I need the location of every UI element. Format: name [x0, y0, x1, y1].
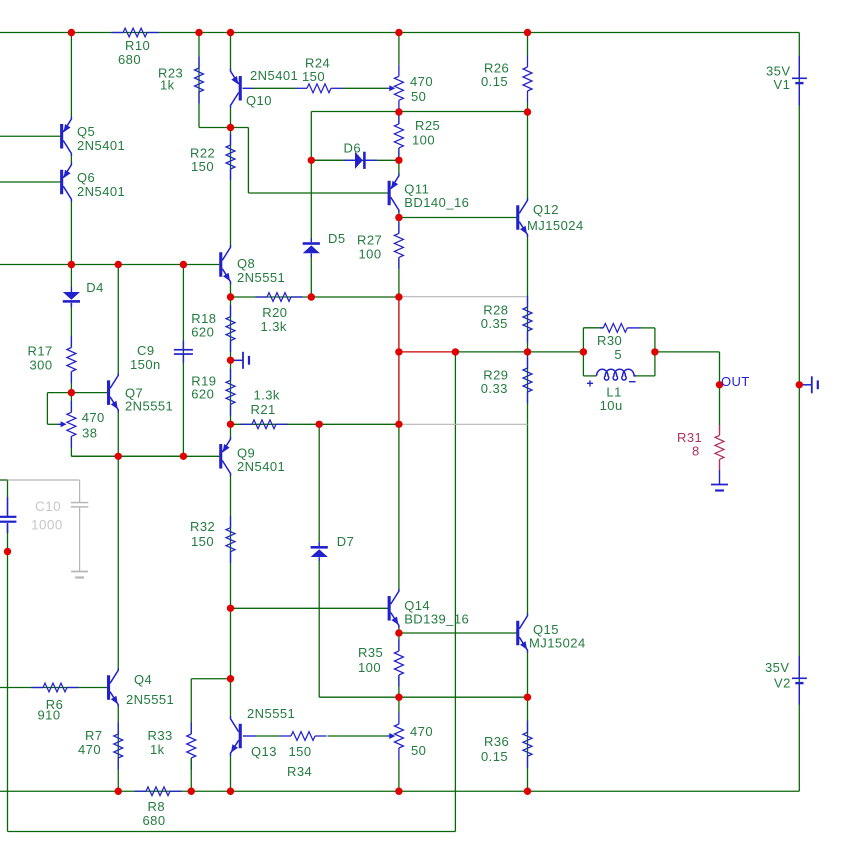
svg-text:620: 620	[191, 387, 214, 402]
svg-text:1000: 1000	[31, 518, 63, 533]
svg-text:0.15: 0.15	[481, 749, 508, 764]
svg-text:V2: V2	[774, 676, 791, 691]
svg-text:R27: R27	[357, 232, 382, 247]
svg-text:MJ15024: MJ15024	[529, 636, 586, 651]
svg-text:2N5551: 2N5551	[126, 692, 174, 707]
svg-text:D7: D7	[337, 534, 355, 549]
svg-text:D5: D5	[328, 231, 346, 246]
svg-text:35V: 35V	[765, 660, 789, 675]
svg-text:MJ15024: MJ15024	[527, 218, 584, 233]
svg-text:Q5: Q5	[77, 124, 95, 139]
svg-text:−: −	[629, 374, 637, 389]
svg-text:620: 620	[191, 325, 214, 340]
svg-text:150: 150	[302, 69, 325, 84]
svg-text:2N5551: 2N5551	[237, 270, 285, 285]
svg-text:R25: R25	[415, 118, 440, 133]
svg-text:300: 300	[30, 358, 53, 373]
svg-text:10u: 10u	[600, 398, 623, 413]
svg-text:8: 8	[692, 444, 700, 459]
svg-text:Q4: Q4	[134, 672, 152, 687]
svg-text:50: 50	[411, 89, 426, 104]
svg-text:OUT: OUT	[721, 374, 750, 389]
svg-text:470: 470	[410, 74, 433, 89]
svg-text:2N5551: 2N5551	[125, 399, 173, 414]
svg-text:150: 150	[289, 744, 312, 759]
svg-text:150: 150	[191, 159, 214, 174]
svg-text:Q6: Q6	[77, 170, 95, 185]
svg-text:100: 100	[359, 247, 382, 262]
svg-text:470: 470	[82, 410, 105, 425]
svg-text:1k: 1k	[150, 742, 165, 757]
svg-text:+: +	[587, 377, 594, 391]
svg-text:0.15: 0.15	[481, 74, 508, 89]
svg-text:2N5401: 2N5401	[237, 459, 285, 474]
svg-text:R10: R10	[125, 38, 150, 53]
svg-text:R17: R17	[28, 344, 53, 359]
svg-text:Q13: Q13	[251, 744, 277, 759]
svg-text:150: 150	[191, 534, 214, 549]
svg-text:Q8: Q8	[237, 256, 255, 271]
svg-text:1.3k: 1.3k	[261, 319, 287, 334]
svg-text:1.3k: 1.3k	[254, 388, 280, 403]
svg-text:BD139_16: BD139_16	[404, 612, 469, 627]
svg-text:2N5401: 2N5401	[250, 68, 298, 83]
svg-text:R36: R36	[484, 734, 509, 749]
svg-text:2N5551: 2N5551	[247, 706, 295, 721]
svg-text:150n: 150n	[130, 357, 161, 372]
svg-text:100: 100	[358, 660, 381, 675]
svg-text:Q12: Q12	[533, 202, 559, 217]
svg-text:680: 680	[143, 813, 166, 828]
svg-text:C10: C10	[35, 499, 61, 514]
svg-text:680: 680	[118, 52, 141, 67]
svg-text:R8: R8	[148, 799, 166, 814]
svg-text:0.35: 0.35	[481, 316, 508, 331]
svg-text:Q10: Q10	[246, 93, 272, 108]
svg-text:R30: R30	[597, 333, 622, 348]
svg-text:C9: C9	[137, 343, 155, 358]
svg-text:R35: R35	[358, 645, 383, 660]
svg-text:0.33: 0.33	[481, 381, 508, 396]
svg-text:R7: R7	[85, 728, 103, 743]
svg-text:100: 100	[412, 133, 435, 148]
svg-text:470: 470	[78, 742, 101, 757]
svg-text:38: 38	[82, 426, 97, 441]
svg-text:5: 5	[614, 347, 622, 362]
svg-text:910: 910	[38, 708, 61, 723]
svg-text:R32: R32	[190, 519, 215, 534]
svg-text:470: 470	[410, 724, 433, 739]
svg-text:R33: R33	[148, 728, 173, 743]
svg-text:50: 50	[411, 743, 426, 758]
svg-text:2N5401: 2N5401	[77, 138, 125, 153]
svg-text:R21: R21	[251, 402, 276, 417]
svg-text:1k: 1k	[160, 78, 175, 93]
svg-text:2N5401: 2N5401	[77, 184, 125, 199]
svg-text:V1: V1	[774, 77, 791, 92]
svg-text:D6: D6	[344, 141, 362, 156]
svg-text:BD140_16: BD140_16	[404, 195, 469, 210]
svg-text:R20: R20	[262, 305, 287, 320]
svg-text:R34: R34	[287, 764, 312, 779]
svg-text:D4: D4	[86, 280, 104, 295]
